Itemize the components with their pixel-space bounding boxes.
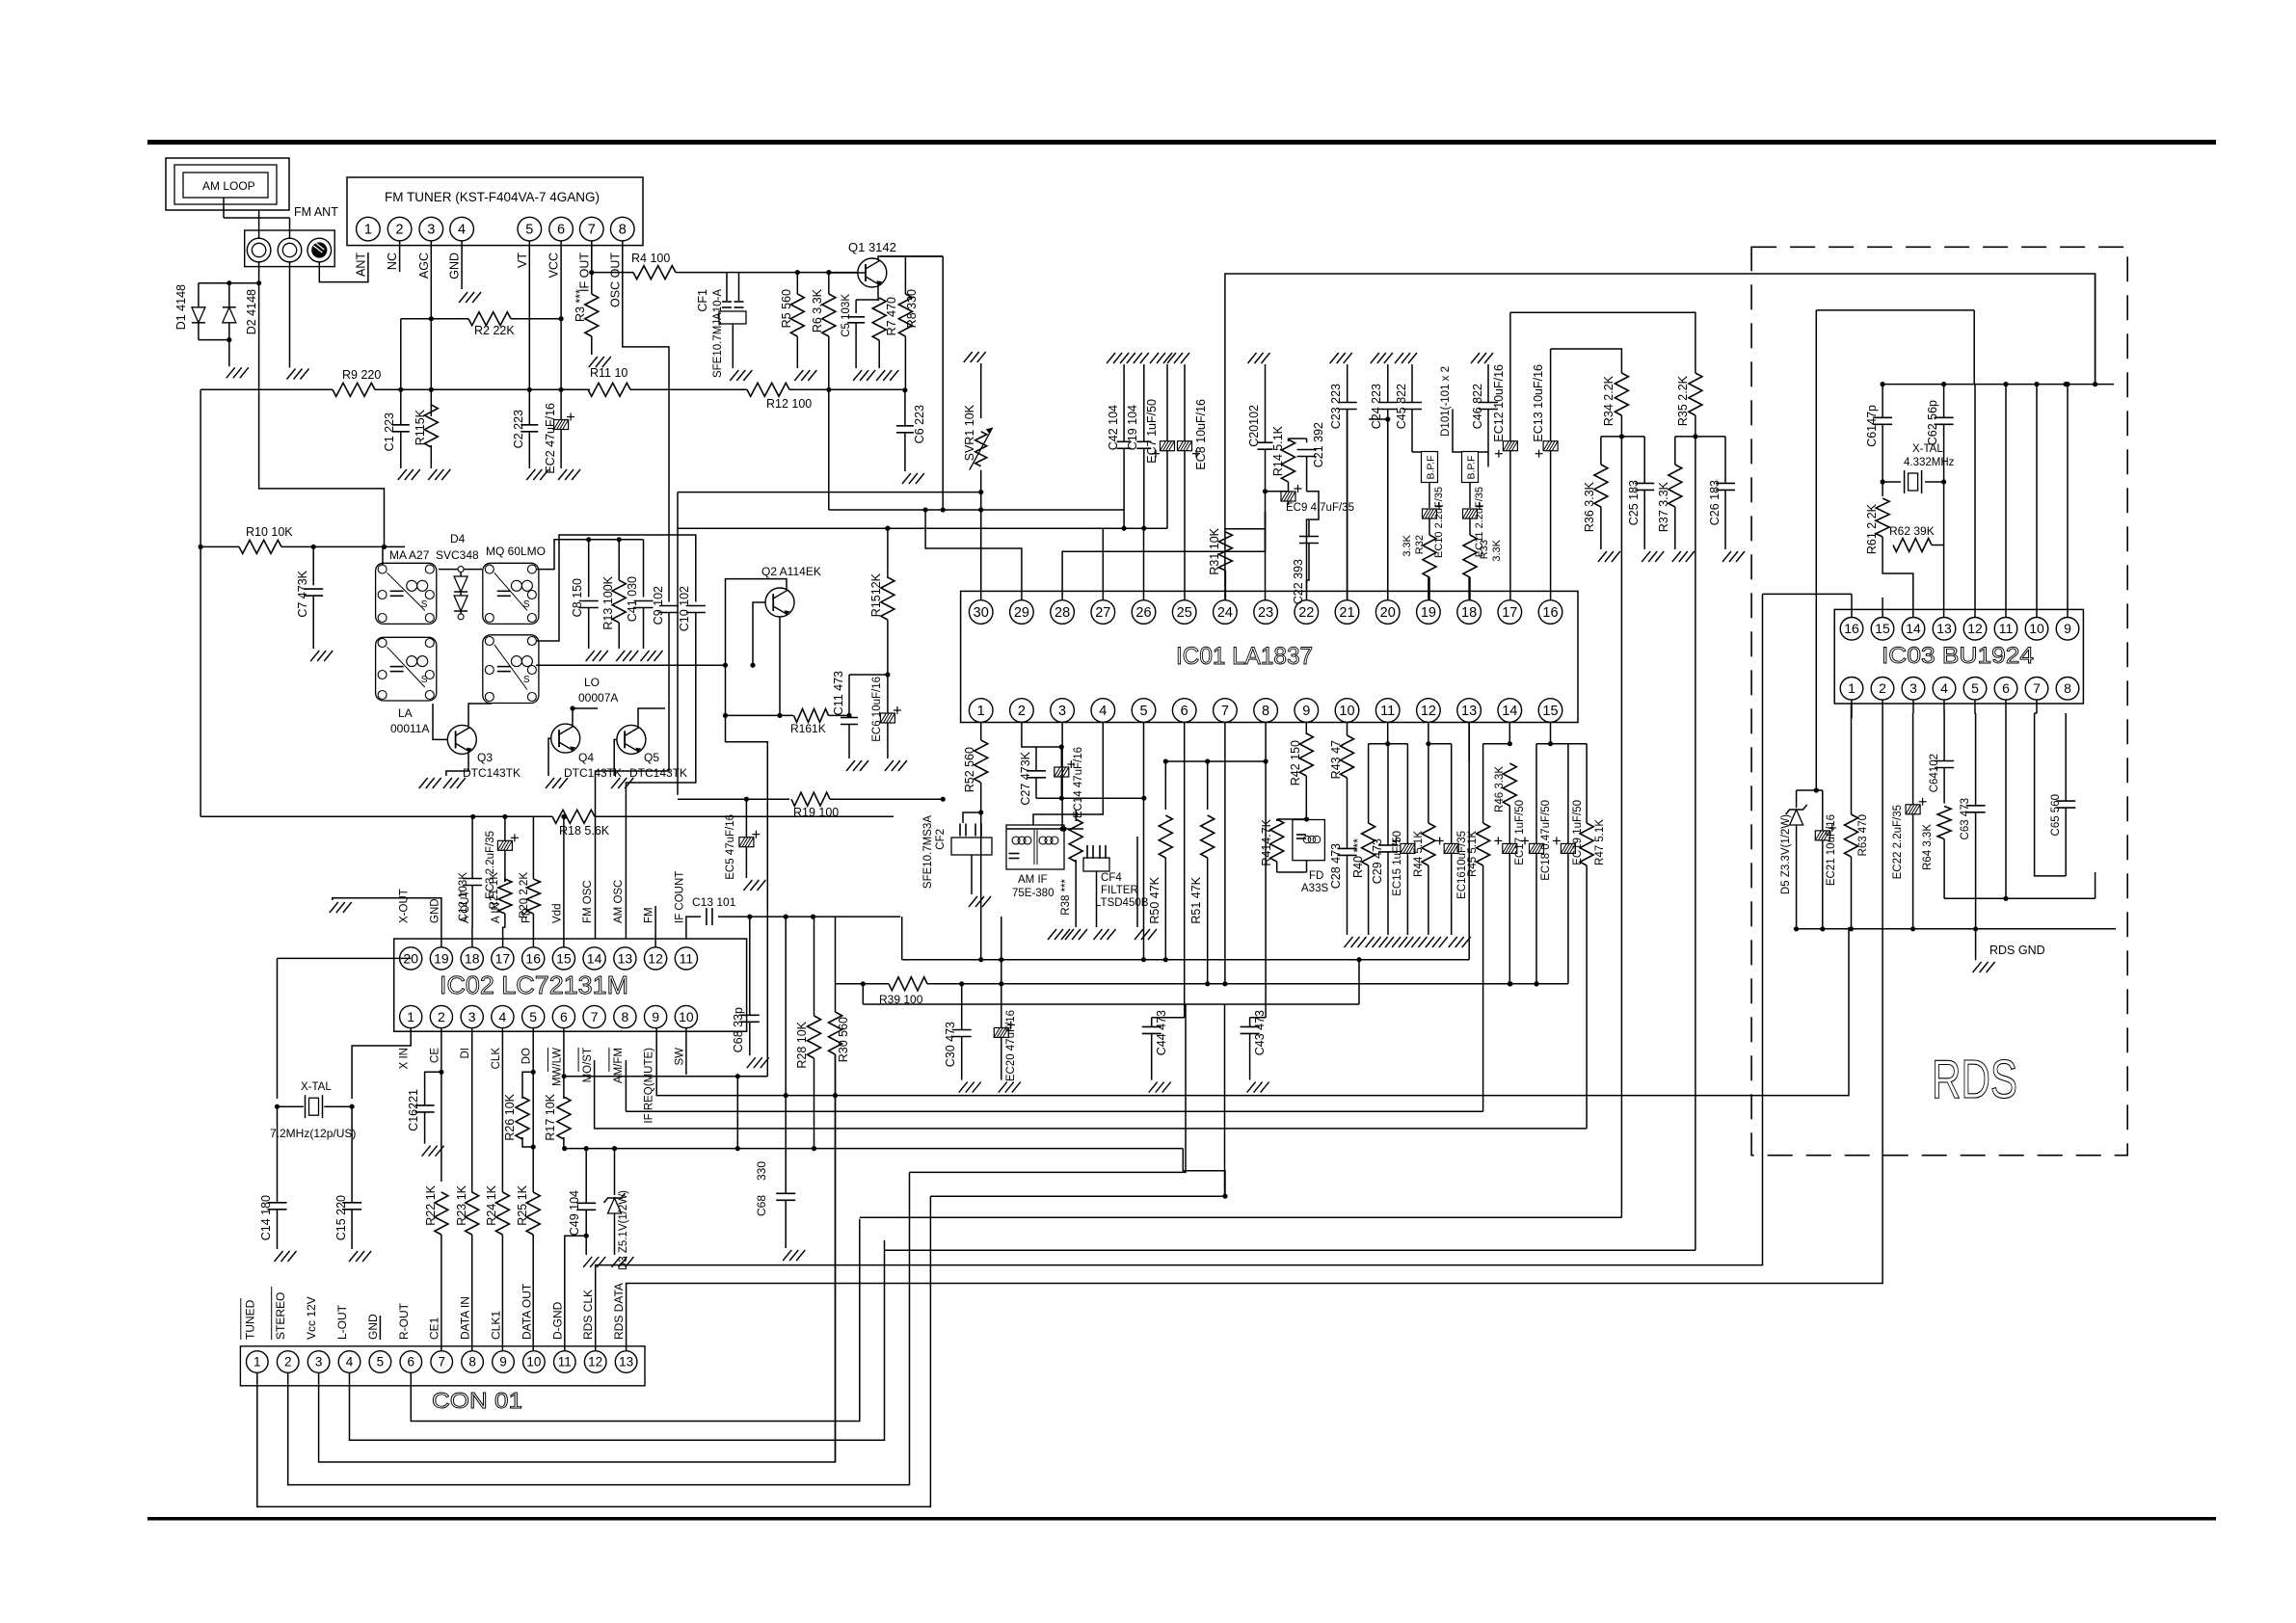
- IC02 bottom pins 1-10: [400, 1005, 422, 1027]
- svg-text:R25 1K: R25 1K: [516, 1184, 529, 1225]
- svg-text:X-TAL: X-TAL: [1912, 443, 1943, 455]
- svg-text:6: 6: [1181, 704, 1188, 719]
- resistor R7 470: [872, 298, 886, 340]
- wire R4 to CF1 and Q1: [676, 272, 727, 274]
- svg-text:EC8 10uF/16: EC8 10uF/16: [1194, 399, 1208, 470]
- ground under C5: [853, 370, 862, 381]
- capacitor C11 473: [848, 675, 850, 718]
- wire RDS GND stub: [1975, 929, 1977, 961]
- FM tuner module box: [347, 177, 643, 246]
- capacitor C41 030: [643, 540, 645, 598]
- wire CON staircase pin6: [411, 1219, 860, 1422]
- svg-text:C15 220: C15 220: [334, 1195, 348, 1240]
- ground under C28: [1345, 937, 1353, 947]
- ground under c2: [287, 369, 296, 380]
- svg-text:S: S: [421, 599, 428, 610]
- svg-text:R28 10K: R28 10K: [795, 1021, 809, 1068]
- wire D1 D2 bottom rail: [199, 339, 229, 341]
- svg-text:R21 1K: R21 1K: [489, 872, 500, 910]
- wire line A MW/LW to bus: [564, 1076, 767, 1078]
- capacitor C7 473K: [312, 546, 314, 585]
- svg-text:18: 18: [1461, 605, 1477, 621]
- svg-text:6: 6: [557, 223, 565, 238]
- ground under C7: [310, 651, 319, 661]
- wire Q4 leads: [548, 738, 550, 776]
- svg-text:14: 14: [1502, 704, 1517, 719]
- svg-text:2: 2: [396, 223, 404, 238]
- ground under C41: [641, 651, 650, 661]
- svg-text:FILTER: FILTER: [1101, 885, 1138, 896]
- wire bus y1191: [564, 1148, 1183, 1150]
- svg-text:4: 4: [458, 223, 466, 238]
- wire pin5 column down to rail: [1974, 700, 1977, 713]
- electrolytic EC15 1uF/50: [1406, 744, 1408, 843]
- wire R31 top rail: [1225, 528, 1265, 530]
- wire pin30 column SVR1: [980, 492, 982, 600]
- svg-text:B.P.F: B.P.F: [1426, 456, 1437, 480]
- wire Q2 emitter down: [779, 617, 781, 715]
- electrolytic EC19 1uF/50: [1567, 744, 1569, 843]
- svg-text:R161K: R161K: [790, 722, 826, 735]
- wire pin6 pin7 pin8 columns: [1184, 723, 1186, 1018]
- resistor R62 39K: [1893, 539, 1932, 552]
- svg-text:IF COUNT: IF COUNT: [674, 871, 685, 923]
- ceramic filter CF2 SFE10.7MS3A: [959, 824, 961, 837]
- svg-text:R61 2.2K: R61 2.2K: [1865, 503, 1879, 554]
- svg-text:LA: LA: [398, 706, 413, 720]
- svg-text:S: S: [523, 599, 530, 610]
- svg-text:14: 14: [587, 950, 602, 966]
- wire R62 node down to pin14: [1882, 545, 1913, 618]
- ground under CF2: [969, 896, 977, 907]
- capacitor C68 330: [776, 1192, 795, 1194]
- IC03 BU1924 body: [1834, 609, 2083, 704]
- svg-text:C1 223: C1 223: [383, 412, 396, 451]
- svg-text:D-GND: D-GND: [550, 1301, 564, 1340]
- resistor R115K: [424, 405, 438, 447]
- wire Q1 base from R6 node: [829, 272, 866, 274]
- wire pin8 rail to R50 R51: [1165, 760, 1266, 762]
- svg-text:R115K: R115K: [414, 409, 427, 445]
- wire LO block to C10 rail: [536, 535, 696, 641]
- svg-text:R2 22K: R2 22K: [474, 324, 515, 337]
- svg-text:X-OUT: X-OUT: [399, 889, 411, 923]
- diode D2 4148: [227, 280, 231, 285]
- wire pin7 junction to R4: [592, 272, 633, 274]
- wire AM loop to connector: [258, 210, 260, 239]
- svg-text:75E-380: 75E-380: [1012, 888, 1054, 899]
- svg-text:C64102: C64102: [1929, 754, 1940, 792]
- resistor R3 ***: [585, 294, 599, 336]
- ground under R115K: [428, 469, 437, 480]
- svg-text:C12 103K: C12 103K: [458, 872, 469, 921]
- capacitor C45 822: [1408, 353, 1417, 363]
- svg-text:27: 27: [1095, 605, 1110, 621]
- svg-text:R10 10K: R10 10K: [246, 525, 293, 539]
- ground under C15: [349, 1251, 358, 1262]
- wire pin16 link from RDS CLK: [1763, 593, 1853, 595]
- ground under C16: [422, 1146, 431, 1157]
- wire tuner pin3 AGC down: [430, 241, 432, 416]
- svg-text:RDS: RDS: [1932, 1049, 2017, 1110]
- ground under D2: [227, 367, 235, 378]
- svg-text:1: 1: [977, 704, 985, 719]
- svg-text:C13 101: C13 101: [692, 895, 736, 909]
- svg-text:5: 5: [377, 1355, 385, 1370]
- electrolytic EC9 4.7uF/35: [1281, 492, 1295, 501]
- wire Q1 emitter down: [878, 285, 879, 301]
- svg-text:MA A27: MA A27: [389, 548, 430, 562]
- svg-text:EC15 1uF/50: EC15 1uF/50: [1392, 831, 1403, 896]
- wire R10 to MA coil top: [313, 545, 384, 547]
- wire pin19 GND west: [333, 898, 441, 947]
- IC03 top pins 16-9: [1840, 618, 1863, 641]
- svg-text:C10 102: C10 102: [678, 586, 691, 631]
- ground under R7: [876, 370, 885, 381]
- ground under EC5: [743, 880, 752, 891]
- svg-text:R33: R33: [1479, 540, 1490, 559]
- wire pin2 CE column down to CON pin7: [441, 1028, 442, 1182]
- svg-text:SW: SW: [674, 1048, 685, 1066]
- wire pin19 pin18 columns: [1428, 577, 1429, 600]
- svg-text:19: 19: [1421, 605, 1436, 621]
- svg-text:EC10 2.2uF/35: EC10 2.2uF/35: [1433, 487, 1445, 558]
- svg-text:26: 26: [1135, 605, 1151, 621]
- overlines on pin labels: [547, 1048, 548, 1072]
- wire bus y529: [829, 509, 1124, 511]
- svg-text:R52 560: R52 560: [963, 747, 976, 792]
- wire R39 line east: [927, 983, 1568, 985]
- transistor Q1 3142: [858, 258, 887, 287]
- zener diode D5 Z3.3V: [1796, 790, 1798, 808]
- resistor R44 5.1K: [1428, 744, 1429, 823]
- resistor R40 ***: [1368, 744, 1370, 823]
- wire pin13 column from C62: [1943, 545, 1945, 618]
- wire top bridge rail inside RDS: [1816, 309, 1974, 311]
- ceramic filter CF4 LTSD450B: [1086, 845, 1088, 859]
- svg-text:C62 56p: C62 56p: [1926, 400, 1939, 445]
- svg-text:C68: C68: [755, 1195, 768, 1216]
- capacitor C61 47p: [1882, 385, 1883, 418]
- resistor R30 560: [835, 917, 837, 1012]
- svg-text:3: 3: [1058, 704, 1066, 719]
- wire pin6 column down to rail: [2005, 700, 2007, 898]
- svg-text:ANT: ANT: [354, 253, 367, 277]
- ground under EC20: [999, 1082, 1007, 1093]
- svg-text:R414.7K: R414.7K: [1260, 818, 1273, 865]
- wire tuner pin7 IF OUT down to R3: [591, 241, 593, 294]
- svg-text:25: 25: [1177, 605, 1192, 621]
- svg-text:LO: LO: [584, 676, 600, 689]
- svg-text:C16221: C16221: [407, 1089, 420, 1131]
- svg-text:AM OSC: AM OSC: [613, 880, 625, 923]
- svg-text:R12 100: R12 100: [766, 397, 812, 411]
- svg-text:1: 1: [407, 1009, 414, 1024]
- capacitor C13 101: [686, 917, 701, 939]
- resistor R38 ***: [1075, 810, 1077, 821]
- svg-text:AGC: AGC: [417, 253, 431, 279]
- FM ANT connector J1: [245, 230, 335, 267]
- wire RDS DATA from CON pin13: [627, 714, 1883, 1350]
- svg-text:C68 33p: C68 33p: [732, 1007, 745, 1052]
- transformer MQ 60LMO: [483, 563, 539, 624]
- svg-text:14: 14: [1906, 621, 1921, 636]
- wire R12 to C6 node: [789, 388, 905, 390]
- svg-text:10: 10: [1339, 704, 1354, 719]
- resistor R31 10K: [1218, 532, 1232, 571]
- svg-text:C24 223: C24 223: [1370, 384, 1383, 429]
- capacitor C23 223: [1344, 353, 1352, 363]
- wire pin17 loop to R35 top: [1510, 312, 1695, 359]
- wire CON pin5 GND stub: [379, 1316, 381, 1340]
- svg-text:D2 4148: D2 4148: [245, 289, 258, 334]
- transistor Q3 DTC143TK: [447, 725, 476, 754]
- svg-text:10: 10: [526, 1355, 541, 1370]
- RDS dashed border: [1751, 247, 2127, 1155]
- svg-text:R4 100: R4 100: [631, 252, 670, 265]
- svg-text:R9 220: R9 220: [342, 368, 381, 382]
- svg-text:S: S: [421, 675, 428, 685]
- wire pin20 to crystal: [394, 957, 412, 959]
- resistor R45 5.1K: [1482, 744, 1484, 823]
- wire staircase pin1 link: [930, 1004, 1224, 1196]
- svg-text:SVC348: SVC348: [436, 548, 479, 562]
- wire IF COUNT corner down to y995: [901, 917, 903, 960]
- svg-text:7: 7: [438, 1355, 445, 1370]
- svg-text:R47 5.1K: R47 5.1K: [1594, 819, 1606, 865]
- grounds under AM IF bank: [1048, 929, 1056, 940]
- capacitor C19 104: [1140, 353, 1149, 363]
- top border rule: [147, 140, 2216, 145]
- capacitor C46 822: [1484, 353, 1493, 363]
- svg-text:C20102: C20102: [1247, 405, 1261, 447]
- svg-text:DI: DI: [460, 1048, 471, 1059]
- wire pin4 CLK column to CON9: [501, 1028, 503, 1192]
- svg-text:B.P.F: B.P.F: [1466, 456, 1478, 480]
- electrolytic EC8 10uF/16: [1181, 353, 1189, 363]
- overline TUNED STEREO: [240, 1298, 242, 1340]
- capacitor C6 223: [904, 390, 906, 426]
- svg-text:16: 16: [1542, 605, 1558, 621]
- svg-text:C49 104: C49 104: [568, 1190, 581, 1236]
- ground under R5: [794, 370, 803, 381]
- electrolytic EC14 47uF/16: [1060, 747, 1062, 767]
- svg-text:SVR1 10K: SVR1 10K: [963, 404, 976, 461]
- svg-text:C45 822: C45 822: [1395, 384, 1408, 429]
- svg-text:11: 11: [1380, 704, 1395, 719]
- wire pin24 loop to RDS top: [1225, 274, 2096, 600]
- bottom border rule: [147, 1517, 2216, 1521]
- transformer LO 00007A: [483, 635, 539, 704]
- wire pin1 to crystal right: [352, 1028, 411, 1099]
- svg-text:R34 2.2K: R34 2.2K: [1602, 375, 1615, 426]
- svg-text:R35 2.2K: R35 2.2K: [1676, 375, 1690, 426]
- resistor R51 47K: [1207, 761, 1209, 810]
- wire CON staircase pin3: [319, 1054, 836, 1462]
- svg-text:C41 030: C41 030: [626, 576, 639, 622]
- wire line y1153 AM/FM to R45 column: [626, 1110, 1482, 1112]
- wire Q3 base collector: [433, 704, 447, 739]
- svg-text:EC5 47uF/16: EC5 47uF/16: [725, 814, 736, 880]
- resistor R26 10K bypass: [522, 1072, 533, 1099]
- resistor R47 5.1K: [1586, 744, 1588, 823]
- ground under C6: [902, 473, 911, 484]
- capacitor C42 104: [1120, 353, 1129, 363]
- electrolytic EC5 47uF/16: [745, 799, 747, 837]
- svg-text:4: 4: [1099, 704, 1107, 719]
- wire tuner pin8 OSC OUT down and east: [623, 241, 669, 590]
- wire pin11 bracket: [1387, 723, 1389, 744]
- svg-text:9: 9: [1302, 704, 1310, 719]
- svg-text:24: 24: [1217, 605, 1233, 621]
- wire EC14 bottom rail: [1036, 797, 1144, 799]
- svg-text:R64 3.3K: R64 3.3K: [1922, 824, 1934, 870]
- wire R35 column down right side of IC01: [1695, 437, 1696, 1250]
- svg-text:FM: FM: [644, 907, 655, 923]
- svg-text:DATA IN: DATA IN: [459, 1296, 472, 1340]
- svg-text:10: 10: [679, 1009, 694, 1024]
- capacitor C22 393: [1308, 520, 1310, 536]
- wire R9 bus east: [401, 388, 590, 390]
- svg-text:EC2 47uF/16: EC2 47uF/16: [544, 403, 557, 474]
- svg-text:X IN: X IN: [399, 1048, 411, 1069]
- resistor R63 470: [1851, 704, 1853, 814]
- wire Q5 leads: [614, 739, 617, 776]
- svg-text:12: 12: [1421, 704, 1436, 719]
- svg-text:DO: DO: [521, 1048, 533, 1064]
- svg-text:13: 13: [619, 1355, 633, 1370]
- svg-text:OSC OUT: OSC OUT: [608, 253, 622, 307]
- svg-text:17: 17: [495, 950, 511, 966]
- svg-text:15: 15: [556, 950, 572, 966]
- svg-text:R26 10K: R26 10K: [503, 1093, 517, 1140]
- svg-text:R50 47K: R50 47K: [1148, 876, 1161, 923]
- wire Q2 base: [753, 602, 765, 665]
- wire pin16 bracket to R34 top: [1551, 349, 1622, 359]
- svg-text:MW/LW: MW/LW: [551, 1048, 563, 1086]
- svg-text:C46 822: C46 822: [1471, 384, 1484, 429]
- svg-text:Q3: Q3: [477, 751, 493, 764]
- wire R2 left leg to C1: [400, 319, 402, 425]
- wire RDS ground bus: [1794, 928, 2116, 930]
- resistor R19 100: [791, 792, 830, 806]
- capacitor C2 223: [521, 424, 538, 426]
- svg-text:D101(-101 x 2: D101(-101 x 2: [1440, 366, 1452, 437]
- wire line y1263 to R34 column: [860, 1216, 1622, 1218]
- svg-text:Q5: Q5: [644, 751, 659, 764]
- wire FM ANT c1 line down to coil rail: [259, 283, 385, 547]
- capacitor C65 560: [2065, 713, 2067, 801]
- svg-text:AM/FM: AM/FM: [613, 1048, 625, 1083]
- svg-text:8: 8: [2064, 680, 2071, 696]
- svg-text:R43 47: R43 47: [1329, 740, 1343, 779]
- ground under C30: [959, 1082, 968, 1093]
- svg-text:3.3K: 3.3K: [1402, 534, 1413, 556]
- ground under R36: [1598, 551, 1607, 562]
- svg-text:7.2MHz(12p/US): 7.2MHz(12p/US): [270, 1127, 356, 1140]
- svg-text:C27 473K: C27 473K: [1019, 751, 1032, 805]
- ground under C29: [1385, 937, 1394, 947]
- wire CON staircase pin1: [257, 1196, 931, 1506]
- wire pin3 column to AM IF rail: [1061, 723, 1063, 830]
- resistor R2 22K: [401, 318, 468, 320]
- svg-text:C9 102: C9 102: [652, 586, 665, 625]
- svg-text:9: 9: [2064, 621, 2071, 636]
- svg-text:9: 9: [652, 1009, 659, 1024]
- wire pin2 column: [1882, 700, 1883, 714]
- svg-text:C43 473: C43 473: [1253, 1010, 1267, 1055]
- wire tuner pin6 VCC down: [560, 241, 562, 419]
- FD A33S discriminator: [1293, 820, 1325, 861]
- svg-text:R51 47K: R51 47K: [1189, 876, 1203, 923]
- svg-text:17: 17: [1502, 605, 1517, 621]
- svg-text:7: 7: [591, 1009, 599, 1024]
- svg-text:00011A: 00011A: [390, 722, 429, 735]
- ground under R13: [616, 651, 625, 661]
- svg-text:Q4: Q4: [578, 751, 594, 764]
- bandpass filter BPF2: [1462, 452, 1479, 483]
- wire Q2 collector loop down to MW line: [726, 579, 788, 1077]
- svg-text:R38 ***: R38 ***: [1060, 878, 1072, 915]
- resistor R36 3.3K: [1600, 437, 1602, 465]
- wire left coil rail to SVR1 node: [678, 492, 981, 493]
- svg-text:R14 5.1K: R14 5.1K: [1271, 425, 1285, 476]
- svg-text:C14 180: C14 180: [259, 1195, 273, 1240]
- wire pin4 column to AM IF: [1033, 723, 1103, 826]
- wire CON staircase pin2: [288, 1172, 910, 1484]
- wire R64 junction rail: [1944, 897, 2096, 899]
- capacitor C26 183: [1724, 437, 1726, 484]
- resistor R39 100: [836, 983, 890, 985]
- svg-text:8: 8: [468, 1355, 476, 1370]
- capacitor C49 104: [585, 1149, 587, 1204]
- ground under C68 330: [783, 1250, 791, 1261]
- wire pin5 column: [1143, 723, 1145, 960]
- electrolytic EC17 1uF/50: [1503, 843, 1517, 853]
- resistor R17 10K on MW/LW column: [563, 1028, 565, 1099]
- wire pin15 stub: [1882, 598, 1883, 618]
- svg-text:6: 6: [2002, 680, 2010, 696]
- ground under Q4: [546, 778, 554, 788]
- ground under C49: [583, 1257, 592, 1267]
- svg-text:EC9 4.7uF/35: EC9 4.7uF/35: [1286, 502, 1354, 514]
- svg-text:CLK1: CLK1: [490, 1311, 503, 1340]
- svg-text:4.332MHz: 4.332MHz: [1904, 457, 1955, 468]
- wire AM IF row link: [1006, 828, 1083, 830]
- svg-text:23: 23: [1258, 605, 1273, 621]
- svg-text:EC17 1uF/50: EC17 1uF/50: [1514, 800, 1526, 865]
- capacitor C62 56p: [1943, 385, 1945, 418]
- wire pin14 bracket: [1508, 723, 1510, 744]
- svg-text:00007A: 00007A: [578, 691, 618, 705]
- wire MA to D4: [439, 569, 458, 571]
- svg-text:3: 3: [1909, 680, 1917, 696]
- resistor R9 220: [200, 388, 333, 390]
- svg-text:2: 2: [438, 1009, 445, 1024]
- wire pin21 pin20 columns: [1347, 410, 1348, 600]
- wire C21 bracket to pin22: [1307, 492, 1320, 589]
- wire IF REQ line y1136: [656, 927, 1849, 1096]
- svg-text:EC14 47uF/16: EC14 47uF/16: [1073, 747, 1084, 818]
- wire R52 pin1 column foot: [978, 957, 983, 962]
- svg-text:R37 3.3K: R37 3.3K: [1657, 481, 1670, 532]
- svg-text:Q2 A114EK: Q2 A114EK: [761, 565, 821, 578]
- svg-text:11: 11: [680, 950, 694, 966]
- zener diode D3 Z5.1V: [614, 1149, 616, 1195]
- svg-text:FM ANT: FM ANT: [294, 205, 338, 219]
- resistor R10 10K: [200, 545, 239, 547]
- svg-text:R13 100K: R13 100K: [601, 575, 615, 629]
